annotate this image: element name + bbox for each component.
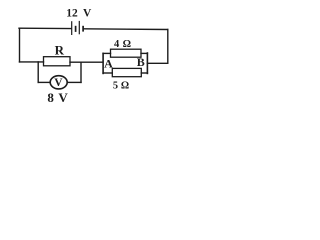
wire: middle horizontal, left side to resistor R <box>20 61 44 63</box>
wire: top branch box to node B <box>141 52 147 54</box>
svg-text:R: R <box>55 43 65 58</box>
wire: node B to right vertical <box>147 62 167 64</box>
node B vertical bar <box>146 53 148 73</box>
wire: top, right segment (battery to top-right corner) <box>84 28 168 31</box>
svg-text:8 V: 8 V <box>47 90 68 105</box>
battery B1 (12 V cells) <box>72 21 83 35</box>
voltmeter V1 <box>50 76 67 89</box>
resistor 4 ohm box <box>111 49 142 57</box>
wire: bottom branch box to node B <box>141 72 147 74</box>
svg-text:4 Ω: 4 Ω <box>114 39 131 50</box>
svg-text:A: A <box>104 57 113 71</box>
wire: resistor R to node A <box>70 61 103 63</box>
svg-text:5 Ω: 5 Ω <box>113 80 129 91</box>
wire: node A bottom branch lead <box>103 72 112 74</box>
wire: voltmeter bottom right segment <box>68 81 82 83</box>
wire: voltmeter branch right drop <box>80 62 82 82</box>
svg-text:12 V: 12 V <box>66 7 92 19</box>
resistor R box <box>44 57 71 66</box>
wire: node A top branch lead <box>103 52 110 54</box>
wire: left vertical of outer loop <box>19 28 21 62</box>
wire: top, left segment (corner to battery) <box>19 27 71 29</box>
wire: right vertical of outer loop <box>167 30 169 64</box>
wire: voltmeter bottom left segment <box>38 81 50 83</box>
svg-text:V: V <box>54 77 63 89</box>
node A vertical bar <box>102 53 104 73</box>
wire: voltmeter branch left drop <box>37 62 39 83</box>
svg-text:B: B <box>137 55 145 69</box>
resistor 5 ohm box <box>112 68 141 76</box>
